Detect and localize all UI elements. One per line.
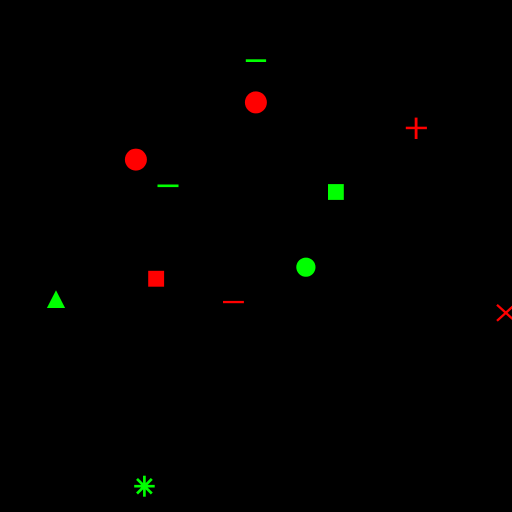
marker red dash [223, 301, 244, 303]
marker green dash 1 [246, 59, 266, 62]
marker red circle 2 [125, 149, 147, 171]
marker green triangle [47, 290, 65, 308]
marker red x (clipped at right edge) [497, 305, 512, 321]
marker red plus [406, 118, 427, 139]
marker green asterisk [134, 476, 155, 497]
marker green square [328, 184, 344, 200]
marker red circle 1 [245, 91, 267, 113]
marker red square [148, 271, 164, 287]
marker green circle [296, 258, 315, 277]
marker green dash 2 [158, 185, 179, 188]
